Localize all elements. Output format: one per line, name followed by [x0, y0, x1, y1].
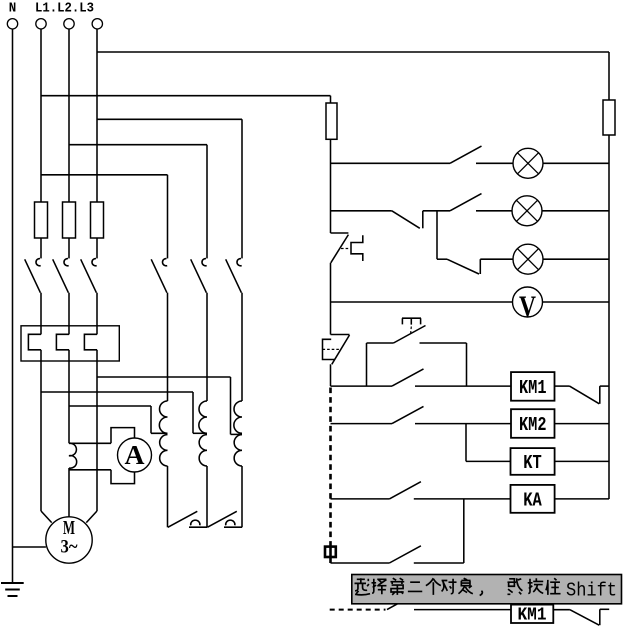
svg-text:M: M [63, 517, 75, 539]
svg-text:KM1: KM1 [518, 606, 547, 626]
svg-text:KT: KT [523, 452, 542, 474]
svg-text:N: N [9, 1, 17, 17]
svg-text:Shift: Shift [566, 580, 617, 602]
svg-text:KM1: KM1 [519, 377, 547, 399]
svg-text:KA: KA [523, 489, 542, 511]
svg-text:A: A [125, 440, 146, 470]
svg-text:KM2: KM2 [519, 414, 547, 436]
svg-text:3~: 3~ [61, 538, 78, 558]
svg-text:V: V [519, 290, 536, 323]
svg-text:L1.L2.L3: L1.L2.L3 [35, 1, 94, 17]
